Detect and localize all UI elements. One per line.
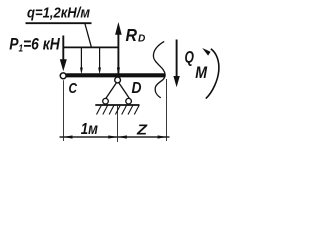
svg-text:q=1,2кН/м: q=1,2кН/м <box>27 4 90 21</box>
svg-text:D: D <box>132 80 142 97</box>
svg-text:D: D <box>138 33 146 45</box>
svg-text:C: C <box>69 80 78 97</box>
svg-text:1м: 1м <box>81 121 99 138</box>
svg-text:Q: Q <box>185 47 194 66</box>
svg-text:Z: Z <box>136 122 148 139</box>
svg-text:P1=6 кН: P1=6 кН <box>9 34 60 54</box>
svg-text:R: R <box>126 25 138 45</box>
svg-text:M: M <box>195 63 207 82</box>
